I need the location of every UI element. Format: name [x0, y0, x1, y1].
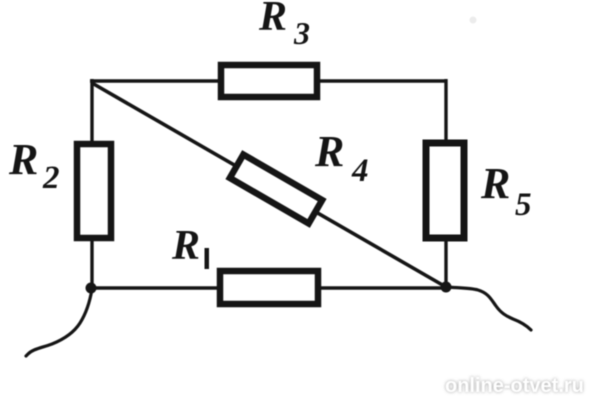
wire: curly external lead at bottom-left terminal — [26, 289, 92, 356]
svg-text:4: 4 — [351, 153, 369, 189]
label R2 — [8, 135, 60, 196]
resistor R3 body (top horizontal box) — [221, 65, 317, 97]
wire: curly external lead at bottom-right terminal — [446, 287, 531, 330]
label R5 — [480, 159, 532, 223]
stray faint smudge near top-right — [470, 17, 477, 24]
wire: left vertical (top-left corner down through R2 to bottom-left junction) — [90, 79, 93, 289]
label R4 — [314, 127, 369, 189]
svg-text:5: 5 — [515, 187, 532, 223]
label R1 (subscript 1 drawn as plain bar) — [171, 223, 209, 269]
resistor R1 body (bottom horizontal box) — [220, 271, 318, 304]
svg-text:2: 2 — [42, 160, 60, 196]
wire: diagonal from top-left corner to bottom-right junction (R4 branch) — [92, 83, 446, 287]
resistor R5 body (right vertical box) — [426, 143, 464, 238]
wire: top horizontal (top-left corner to R3 to top-right corner) — [90, 79, 447, 82]
wire: right vertical (top-right corner down through R5 to bottom-right junction) — [444, 79, 447, 289]
svg-text:3: 3 — [293, 15, 310, 51]
svg-text:R: R — [171, 223, 200, 269]
svg-text:R: R — [314, 127, 344, 176]
svg-text:R: R — [480, 159, 510, 208]
svg-text:online-otvet.ru: online-otvet.ru — [445, 375, 584, 397]
label R3 — [258, 0, 310, 51]
junction node: bottom-left — [86, 283, 97, 294]
svg-text:R: R — [8, 135, 38, 184]
wire: bottom horizontal (bottom-left junction through R1 to bottom-right junction) — [92, 286, 446, 289]
svg-text:R: R — [258, 0, 287, 40]
junction node: bottom-right — [441, 282, 452, 293]
resistor R2 body (left vertical box) — [77, 144, 111, 238]
watermark online-otvet.ru — [445, 375, 584, 397]
resistor R4 body (diagonal box on the R4 branch) — [230, 155, 322, 224]
